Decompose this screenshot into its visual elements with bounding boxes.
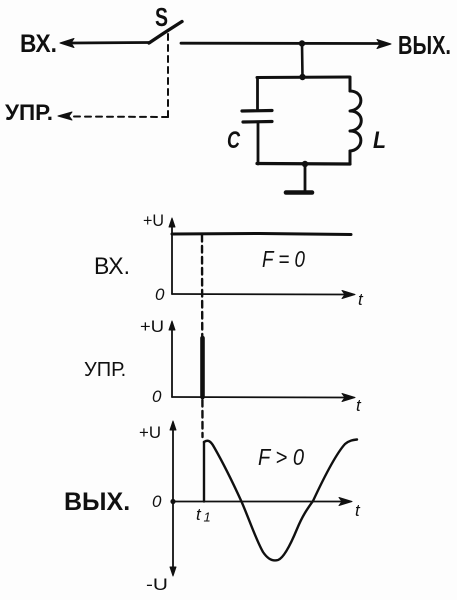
axis t (graph 3) [173,498,352,506]
label ВЫХ. [398,30,451,60]
svg-text:t: t [356,396,362,415]
node tank bottom [302,161,308,167]
svg-text:УПР.: УПР. [5,100,53,125]
label t1 [196,505,211,525]
inductor L [350,78,361,165]
wire junction to tank [301,44,304,78]
dashed marker t1 [201,235,204,437]
switch S [149,22,182,44]
label ВЫХ. (graph 3) [64,488,130,516]
signal УПР pulse [200,338,205,397]
ground [286,164,312,193]
svg-text:L: L [373,127,386,154]
label F > 0 [258,444,304,470]
svg-text:C: C [227,127,240,154]
svg-text:ВХ.: ВХ. [94,253,130,280]
label S [155,2,168,32]
axis U (graph 3) [170,421,176,576]
svg-text:+U: +U [143,211,164,230]
wire tank bottom [257,162,350,166]
svg-text:0: 0 [155,285,165,304]
svg-text:УПР.: УПР. [84,359,126,381]
label +U (graph 2) [140,317,164,336]
label УПР. (graph 2) [84,359,126,381]
node tank top [299,74,305,80]
svg-text:F > 0: F > 0 [258,444,304,470]
label C [227,127,240,154]
capacitor C [242,111,272,123]
svg-text:t: t [196,505,202,524]
axis t (graph 1) [172,291,355,299]
wire tank top [257,76,350,80]
label ВХ. (graph 1) [94,253,130,280]
label F = 0 [262,246,305,272]
label t (graph 3) [355,501,361,520]
label ВХ. [20,30,57,58]
wire capacitor top lead [256,78,259,111]
wire capacitor bottom lead [257,122,260,164]
wire output with arrow [181,40,391,49]
svg-text:-U: -U [146,575,168,594]
label t (graph 2) [356,396,362,415]
label +U (graph 3) [139,423,161,442]
svg-text:1: 1 [204,510,211,525]
label 0 (graph 3) [152,492,162,511]
node origin (graph 3) [170,499,175,504]
axis t (graph 2) [172,394,355,402]
label -U [146,575,168,594]
node junction on output wire [299,40,305,46]
signal ВЫХ sine [204,440,357,561]
signal ВХ level +U [172,234,351,235]
axis U (graph 2) [169,321,175,397]
svg-text:ВЫХ.: ВЫХ. [398,30,451,60]
svg-text:ВЫХ.: ВЫХ. [64,488,130,516]
svg-text:S: S [155,2,168,32]
svg-text:t: t [355,501,361,520]
svg-text:+U: +U [140,317,164,336]
svg-text:0: 0 [152,492,162,511]
svg-text:+U: +U [139,423,161,442]
label t (graph 1) [358,290,364,309]
label +U (graph 1) [143,211,164,230]
svg-text:ВХ.: ВХ. [20,30,57,58]
control dashed wire with arrow [58,34,168,120]
label 0 (graph 2) [152,387,162,406]
label L [373,127,386,154]
label 0 (graph 1) [155,285,165,304]
svg-text:0: 0 [152,387,162,406]
axis U (graph 1) [169,218,175,294]
svg-text:t: t [358,290,364,309]
label УПР. [5,100,53,125]
svg-text:F = 0: F = 0 [262,246,305,272]
wire input with arrow [60,39,150,48]
